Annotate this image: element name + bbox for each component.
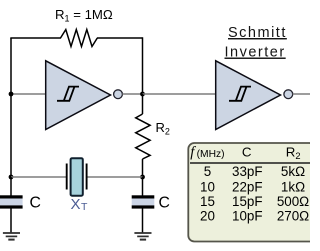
svg-text:R1 = 1MΩ: R1 = 1MΩ — [55, 7, 113, 24]
wire inverter input — [11, 93, 46, 95]
wire left cap lead — [10, 177, 12, 196]
wire right cap lead — [142, 177, 144, 196]
svg-text:15pF: 15pF — [232, 194, 263, 209]
svg-text:C: C — [30, 195, 41, 212]
wire left cap to ground — [10, 209, 12, 234]
wire U2 output — [293, 93, 310, 95]
crystal XT right plate — [86, 164, 88, 190]
wire R2 bottom lead — [142, 159, 144, 177]
wire R2 top lead — [142, 94, 144, 114]
ground left — [3, 233, 20, 240]
resistor R2 — [136, 114, 150, 159]
U1 hysteresis symbol — [57, 87, 79, 101]
svg-text:C: C — [242, 145, 252, 160]
svg-text:5kΩ: 5kΩ — [281, 164, 305, 179]
svg-text:C: C — [159, 195, 170, 212]
svg-text:XT: XT — [71, 196, 89, 213]
capacitor C left — [0, 195, 23, 208]
svg-text:5: 5 — [204, 164, 211, 179]
svg-text:22pF: 22pF — [232, 179, 263, 194]
wire feedback right vertical — [142, 37, 144, 94]
svg-text:Inverter: Inverter — [225, 45, 286, 61]
U2 output bubble — [284, 90, 293, 99]
crystal XT body — [71, 158, 83, 196]
ground right — [134, 233, 151, 240]
svg-text:10: 10 — [200, 179, 215, 194]
crystal XT left plate — [66, 164, 68, 190]
svg-text:1kΩ: 1kΩ — [281, 179, 305, 194]
svg-text:33pF: 33pF — [232, 164, 263, 179]
node input junction — [9, 92, 14, 97]
svg-text:Schmitt: Schmitt — [228, 25, 287, 41]
svg-text:500Ω: 500Ω — [277, 194, 309, 209]
wire bottom-right horizontal — [87, 176, 143, 178]
wire node to U2 input — [143, 93, 217, 95]
wire U1 output to node — [122, 93, 142, 95]
op-amp U2 Schmitt inverter triangle — [216, 61, 281, 130]
wire top-left horizontal — [10, 37, 61, 39]
svg-text:R2: R2 — [156, 120, 170, 137]
node bottom-right junction — [140, 175, 145, 180]
svg-text:15: 15 — [200, 194, 215, 209]
svg-text:20: 20 — [200, 209, 215, 224]
wire feedback left vertical — [10, 38, 12, 177]
wire top-right horizontal — [97, 37, 143, 39]
resistor R1 — [61, 30, 98, 47]
svg-text:10pF: 10pF — [232, 209, 263, 224]
U1 output bubble — [114, 90, 123, 99]
svg-text:270Ω: 270Ω — [277, 209, 309, 224]
U2 hysteresis symbol — [229, 87, 251, 101]
capacitor C right — [132, 195, 155, 208]
node bottom-left junction — [9, 175, 14, 180]
wire right cap to ground — [142, 209, 144, 234]
svg-text:(MHz): (MHz) — [197, 149, 225, 160]
table of component values — [188, 143, 315, 242]
node output junction — [140, 92, 145, 97]
op-amp U1 Schmitt inverter triangle — [46, 61, 111, 130]
wire bottom-left horizontal — [11, 176, 66, 178]
